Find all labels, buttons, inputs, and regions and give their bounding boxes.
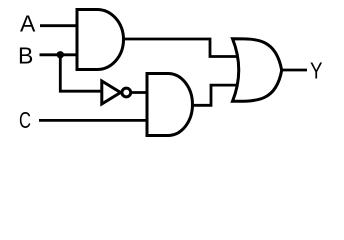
svg-text:C: C [19,107,31,133]
wire: node B branch down to inverter U2 input [60,55,101,91]
AND gate U3 (inputs NOT B, C) [147,74,192,136]
junction dot on node B [57,51,64,58]
wire: input B to AND gate U1 [40,53,79,56]
svg-text:B: B [18,43,33,69]
wire: AND gate U1 output to OR gate U4 top input [123,39,244,57]
OR gate U4 [233,39,282,102]
inverter (NOT gate) U2 triangle [102,81,121,104]
wire: inverter U2 output to AND gate U3 [131,91,148,94]
wire: input C to AND gate U3 [39,119,148,122]
svg-text:A: A [20,11,36,37]
wire: OR gate U4 output to Y [281,69,307,72]
AND gate U1 (inputs A, B) [77,10,124,70]
wire: AND gate U3 output to OR gate U4 bottom input [192,85,244,105]
svg-text:Y: Y [310,58,323,84]
wire: input A to AND gate U1 [40,24,78,27]
inverter U2 output bubble [122,88,131,97]
